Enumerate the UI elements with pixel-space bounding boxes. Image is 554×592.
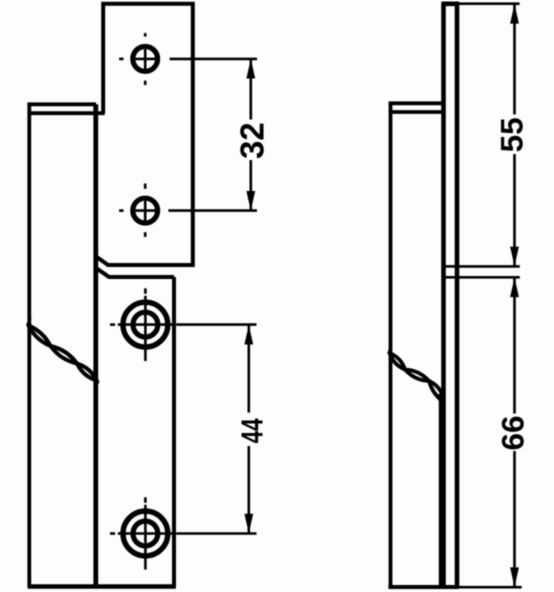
svg-text:32: 32 bbox=[233, 122, 270, 159]
left bar left edge bbox=[27, 103, 31, 587]
twist end blobs (side) bbox=[389, 351, 394, 357]
hole H3 centerlines bbox=[110, 323, 115, 326]
bottom edge (bar + lower plate) bbox=[28, 584, 176, 588]
dim 55 line bbox=[513, 4, 516, 114]
svg-text:44: 44 bbox=[234, 418, 269, 444]
dim 44 extension line top bbox=[176, 323, 256, 326]
left bar second (fold) line bbox=[28, 111, 105, 115]
plate top cap bbox=[441, 1, 459, 6]
twist break symbol (front view) bbox=[29, 326, 97, 381]
dim 66 arrow down bbox=[510, 567, 519, 587]
dim 44 line bbox=[248, 325, 251, 412]
dim 32 arrow down bbox=[246, 191, 255, 211]
dim 66 arrow up bbox=[510, 278, 519, 298]
dim 55 arrow down bbox=[510, 247, 519, 267]
side bottom edge bbox=[388, 585, 459, 589]
twist break symbol (side view) bbox=[390, 353, 444, 398]
hole H2 circle bbox=[133, 198, 158, 223]
upper plate outline bbox=[97, 4, 193, 265]
twist notch left bbox=[27, 318, 30, 326]
dim 55 extension line top bbox=[459, 2, 520, 5]
dim 32 arrow up bbox=[246, 59, 255, 79]
dim 66 line bbox=[513, 278, 516, 414]
dim 44 arrow down bbox=[244, 514, 253, 534]
plate right line bbox=[455, 4, 460, 587]
side bar left edge bbox=[389, 102, 393, 587]
side bar top edge bbox=[389, 101, 444, 105]
hole H4 inner circle bbox=[133, 521, 158, 546]
dim 55 arrow up bbox=[510, 4, 519, 24]
hole H1 crosshair bbox=[133, 58, 157, 61]
twist notch left (side) bbox=[389, 346, 392, 354]
twist notch right bbox=[95, 375, 98, 384]
svg-text:55: 55 bbox=[494, 117, 530, 152]
plate joint edge lower bbox=[444, 276, 458, 279]
dim 44 extension line bottom bbox=[176, 532, 256, 535]
side bar second line bbox=[391, 110, 444, 114]
dim 32 line bbox=[250, 60, 253, 120]
hole H4 outer circle (bush) bbox=[123, 511, 168, 556]
side bar right edge (below twist) bbox=[439, 399, 443, 587]
left bar right edge bbox=[93, 104, 98, 586]
left bar top edge bbox=[28, 102, 96, 106]
dim 55/66 extension line mid lower bbox=[459, 276, 520, 279]
plate left line bbox=[441, 4, 446, 587]
hole H4 centerlines bbox=[110, 532, 115, 535]
hole H3 inner circle bbox=[133, 312, 158, 337]
lower plate right edge bbox=[172, 277, 176, 587]
plate joint edge upper bbox=[444, 265, 458, 268]
svg-text:66: 66 bbox=[495, 415, 531, 450]
dim 32 extension line top bbox=[170, 58, 257, 61]
twist end blobs bbox=[28, 324, 34, 331]
dim 66 extension line bottom bbox=[459, 586, 522, 589]
hole H2 crosshair bbox=[133, 209, 157, 212]
hole H1 (top) circle bbox=[133, 47, 158, 72]
dim 44 arrow up bbox=[244, 325, 253, 345]
hole H3 outer circle (bush) bbox=[123, 302, 168, 347]
dim 55/66 extension line mid upper bbox=[459, 265, 520, 268]
dim 32 extension line bottom bbox=[168, 209, 257, 212]
lower plate top edge with bend diagonal bbox=[97, 269, 174, 277]
